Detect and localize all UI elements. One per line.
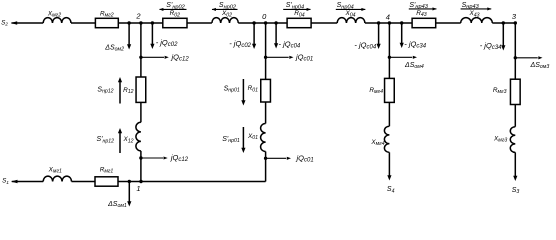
svg-text:ΔSом3: ΔSом3 — [530, 62, 550, 70]
svg-text:Xмг4: Xмг4 — [370, 139, 384, 147]
charging arrow jQc12 bottom — [139, 153, 189, 163]
charging arrow -jQc34 at node 4 — [400, 23, 427, 50]
svg-text:- jQс34: - jQс34 — [404, 39, 426, 49]
svg-text:jQс01: jQс01 — [296, 153, 314, 163]
inductor X02 — [212, 10, 238, 23]
svg-text:Xмг3: Xмг3 — [493, 135, 507, 143]
wire — [365, 22, 412, 24]
svg-text:- jQс02: - jQс02 — [229, 39, 251, 49]
svg-text:R01: R01 — [248, 85, 259, 93]
svg-text:Rмг1: Rмг1 — [100, 166, 114, 174]
resistor Rmg1 — [95, 166, 118, 186]
charging arrow -jQc04 at node 0 — [274, 23, 301, 50]
inductor X01 — [247, 124, 266, 152]
power arrow Snp12 — [97, 77, 122, 104]
charging arrow -jQc34 at node 3 — [480, 23, 506, 51]
inductor Xmg2 — [43, 10, 71, 23]
inductor X12 — [122, 122, 140, 151]
wire — [72, 181, 96, 183]
svg-text:ΔSом4: ΔSом4 — [404, 62, 424, 70]
wire load3 — [514, 23, 516, 79]
loss arrow dSom3 — [514, 56, 550, 70]
power arrow Snp01 — [224, 79, 246, 106]
svg-text:- jQс04: - jQс04 — [279, 39, 301, 49]
wire — [187, 22, 212, 24]
wire — [311, 22, 337, 24]
svg-text:Rмг3: Rмг3 — [493, 87, 507, 95]
loss arrow dSom1 — [107, 182, 131, 210]
charging arrow -jQc04 at node 4 — [354, 23, 380, 51]
node 1 — [128, 180, 143, 193]
resistor Rmg3 — [493, 79, 520, 104]
power arrow S'np12 — [97, 128, 123, 153]
power arrow S'np01 — [222, 127, 245, 153]
resistor R43 — [412, 10, 436, 28]
svg-text:ΔSом1: ΔSом1 — [107, 201, 127, 209]
svg-text:Xмг2: Xмг2 — [47, 10, 61, 18]
loss arrow dSom4 — [388, 56, 424, 71]
svg-text:R12: R12 — [123, 87, 134, 95]
resistor R12 — [123, 77, 146, 102]
svg-text:X12: X12 — [122, 136, 133, 144]
wire — [265, 152, 267, 182]
wire — [388, 102, 390, 126]
inductor Xmg1 — [43, 166, 71, 181]
inductor X43 — [461, 10, 493, 23]
svg-text:R02: R02 — [170, 10, 181, 18]
wire branch01 — [265, 23, 267, 79]
svg-text:S2: S2 — [1, 19, 8, 27]
load arrow S4 — [387, 152, 395, 194]
svg-text:Sнр12: Sнр12 — [97, 87, 113, 95]
wire load4 — [388, 23, 390, 78]
svg-text:- jQс34: - jQс34 — [480, 41, 502, 51]
svg-text:4: 4 — [386, 12, 390, 21]
node 2 — [127, 11, 154, 24]
wire — [238, 22, 287, 24]
svg-text:Xмг1: Xмг1 — [48, 166, 62, 174]
wire — [514, 105, 516, 127]
svg-text:S'нр12: S'нр12 — [97, 136, 115, 144]
svg-text:3: 3 — [512, 12, 517, 21]
charging arrow jQc01 bottom — [264, 153, 314, 163]
svg-text:S3: S3 — [512, 187, 520, 195]
wire — [265, 102, 267, 124]
svg-text:X01: X01 — [247, 133, 258, 141]
charging arrow jQc12 top — [139, 53, 189, 63]
wire node2 rail — [118, 22, 163, 24]
inductor Xmg4 — [370, 126, 389, 152]
svg-text:- jQс04: - jQс04 — [354, 41, 376, 51]
node 4 — [377, 12, 404, 24]
resistor R01 — [248, 79, 271, 102]
svg-text:ΔSом2: ΔSом2 — [104, 44, 124, 52]
resistor Rmg4 — [369, 78, 394, 102]
charging arrow -jQc02 at node 0 — [229, 23, 256, 49]
inductor Xmg3 — [493, 127, 515, 153]
wire branch12 — [140, 23, 142, 77]
resistor Rmg2 — [95, 10, 118, 27]
svg-text:Rмг4: Rмг4 — [369, 87, 383, 95]
node 3 — [502, 12, 517, 24]
power arrow S'np04 — [283, 2, 311, 11]
svg-text:jQс12: jQс12 — [170, 153, 189, 163]
svg-text:2: 2 — [135, 11, 141, 20]
wire — [436, 22, 461, 24]
node S1 source arrow (bottom-left) — [2, 178, 43, 186]
wire — [140, 151, 142, 182]
power arrow S'np43 — [409, 2, 437, 11]
wire — [140, 102, 142, 122]
load arrow S3 — [512, 152, 520, 195]
svg-text:jQс01: jQс01 — [295, 53, 313, 63]
svg-text:S'нр01: S'нр01 — [222, 136, 240, 144]
power arrow Snp02 — [212, 2, 238, 11]
resistor R04 — [287, 10, 311, 28]
svg-text:Rмг2: Rмг2 — [100, 10, 114, 18]
resistor R02 — [163, 10, 187, 28]
svg-text:- jQс02: - jQс02 — [156, 38, 178, 48]
svg-text:0: 0 — [262, 12, 267, 21]
node S2 source arrow (top-left) — [1, 19, 43, 27]
power arrow Snp43 — [461, 2, 492, 11]
svg-text:S4: S4 — [387, 186, 395, 194]
charging arrow jQc01 top — [264, 53, 313, 63]
charging arrow -jQc02 at node 2 — [150, 23, 178, 49]
node 0 — [252, 12, 277, 24]
svg-text:R43: R43 — [416, 10, 427, 18]
svg-text:1: 1 — [136, 184, 140, 193]
wire — [492, 22, 515, 24]
svg-text:R04: R04 — [294, 10, 305, 18]
svg-text:jQс12: jQс12 — [171, 53, 190, 63]
wire bottom rail — [118, 181, 266, 183]
power arrow S'np02 — [159, 2, 186, 11]
inductor X04 — [337, 10, 365, 23]
power arrow Snp04 — [336, 2, 366, 11]
wire — [71, 22, 95, 24]
svg-text:S1: S1 — [2, 178, 9, 186]
loss arrow dSom2 — [104, 23, 131, 52]
svg-text:Sнр01: Sнр01 — [224, 86, 240, 94]
